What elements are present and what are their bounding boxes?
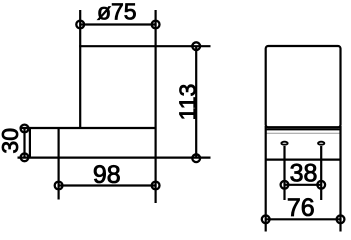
svg-text:76: 76 (287, 194, 315, 222)
dimension line 30 (23, 129, 25, 158)
113 top terminator circle (192, 42, 200, 50)
side view: holder rounded outline (266, 46, 341, 127)
front view: rail inner edge + 98 extension line (57, 127, 59, 200)
113 bottom terminator circle (192, 154, 200, 162)
front view: rail bottom edge + 30/113 extension line (18, 157, 211, 159)
right slot hole (318, 142, 324, 145)
side view: back plate top edge (266, 128, 341, 130)
98 left terminator circle (55, 182, 63, 190)
side view: back plate lip line (267, 132, 340, 134)
svg-text:113: 113 (175, 84, 201, 121)
side view: back plate bottom edge (266, 159, 341, 161)
dimension line 76 (266, 218, 341, 220)
ø75 right terminator circle (152, 21, 160, 29)
front view: rail left end edge (29, 128, 31, 158)
38 left terminator circle (281, 181, 289, 189)
front view: holder top edge + 113 extension line (79, 45, 210, 47)
front view: holder left edge + ø75 extension line (79, 10, 81, 128)
30 bottom terminator circle (21, 153, 29, 161)
svg-text:38: 38 (290, 159, 318, 187)
30 top terminator circle (21, 125, 29, 133)
ø75 left terminator circle (76, 21, 84, 29)
svg-text:30: 30 (0, 128, 23, 154)
dimension line ø75 (80, 23, 155, 25)
svg-text:ø75: ø75 (97, 0, 137, 25)
left slot hole (281, 142, 287, 145)
side view: right edge + 76 extension line (339, 126, 341, 232)
dimension line 38 (285, 184, 322, 186)
38 right terminator circle (317, 181, 325, 189)
side view: left edge + 76 extension line (265, 126, 267, 232)
38 right extension line (320, 146, 322, 200)
svg-text:98: 98 (93, 161, 121, 189)
front view: rail top edge + 30 extension line (20, 127, 156, 129)
98 right terminator circle (152, 182, 160, 190)
76 right terminator circle (337, 215, 345, 223)
76 left terminator circle (262, 215, 270, 223)
dimension line 98 (59, 184, 156, 186)
front view: holder right edge + rail right edge + 98 extension line (155, 10, 157, 203)
38 left extension line (283, 146, 285, 200)
dimension line 113 (195, 46, 197, 158)
